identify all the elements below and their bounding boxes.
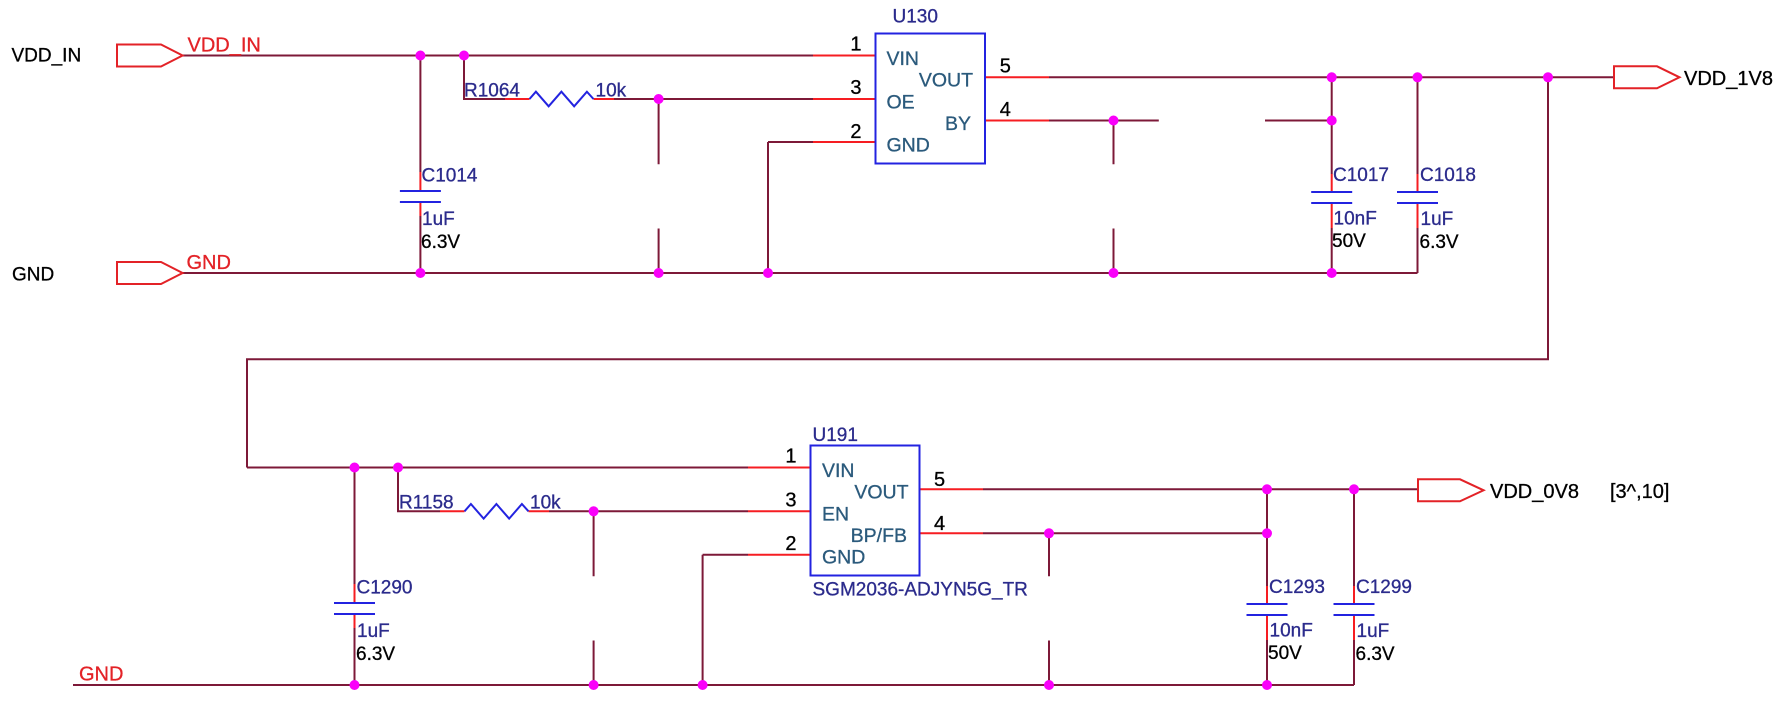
svg-text:GND: GND: [79, 664, 123, 686]
svg-text:10nF: 10nF: [1334, 209, 1377, 230]
svg-text:10k: 10k: [530, 493, 561, 514]
svg-text:BY: BY: [945, 113, 971, 135]
svg-text:BP/FB: BP/FB: [851, 525, 907, 547]
svg-text:3: 3: [850, 77, 861, 99]
svg-text:4: 4: [1000, 99, 1011, 121]
svg-text:1uF: 1uF: [1357, 621, 1390, 642]
svg-text:C1014: C1014: [422, 166, 478, 187]
svg-text:GND: GND: [822, 546, 865, 568]
svg-text:OE: OE: [887, 91, 915, 113]
svg-text:GND: GND: [887, 134, 930, 156]
svg-text:5: 5: [934, 469, 945, 491]
svg-text:1uF: 1uF: [422, 209, 455, 230]
svg-text:VDD_0V8: VDD_0V8: [1490, 481, 1579, 503]
svg-text:VOUT: VOUT: [919, 70, 973, 92]
svg-text:50V: 50V: [1268, 643, 1302, 664]
svg-text:U130: U130: [893, 6, 938, 27]
svg-text:C1290: C1290: [357, 578, 413, 599]
svg-text:6.3V: 6.3V: [1356, 644, 1395, 665]
svg-text:10nF: 10nF: [1270, 621, 1313, 642]
svg-text:1: 1: [785, 446, 796, 468]
svg-text:GND: GND: [12, 265, 54, 286]
svg-text:EN: EN: [822, 503, 849, 525]
svg-text:VDD_1V8: VDD_1V8: [1684, 68, 1773, 90]
svg-text:4: 4: [934, 513, 945, 535]
svg-text:6.3V: 6.3V: [421, 232, 460, 253]
svg-text:2: 2: [850, 121, 861, 143]
svg-text:3: 3: [785, 489, 796, 511]
svg-text:5: 5: [1000, 56, 1011, 78]
svg-text:VDD_IN: VDD_IN: [12, 46, 82, 67]
svg-text:50V: 50V: [1332, 231, 1366, 252]
svg-text:1uF: 1uF: [1421, 209, 1454, 230]
svg-text:R1064: R1064: [464, 81, 520, 102]
svg-text:1uF: 1uF: [357, 621, 390, 642]
svg-text:C1017: C1017: [1333, 165, 1389, 186]
svg-text:VDD_IN: VDD_IN: [188, 34, 261, 56]
svg-text:1: 1: [850, 34, 861, 56]
svg-text:C1018: C1018: [1420, 165, 1476, 186]
svg-text:[3^,10]: [3^,10]: [1610, 481, 1669, 503]
svg-text:R1158: R1158: [399, 493, 454, 514]
svg-text:U191: U191: [813, 425, 858, 446]
svg-text:GND: GND: [187, 252, 231, 274]
svg-text:6.3V: 6.3V: [1420, 232, 1459, 253]
svg-text:2: 2: [785, 533, 796, 555]
svg-text:VOUT: VOUT: [854, 482, 908, 504]
svg-text:C1293: C1293: [1269, 577, 1325, 598]
svg-text:6.3V: 6.3V: [356, 644, 395, 665]
svg-text:SGM2036-ADJYN5G_TR: SGM2036-ADJYN5G_TR: [813, 580, 1028, 601]
svg-text:VIN: VIN: [822, 460, 855, 482]
svg-text:VIN: VIN: [887, 48, 920, 70]
svg-text:C1299: C1299: [1356, 577, 1412, 598]
svg-text:10k: 10k: [596, 81, 627, 102]
